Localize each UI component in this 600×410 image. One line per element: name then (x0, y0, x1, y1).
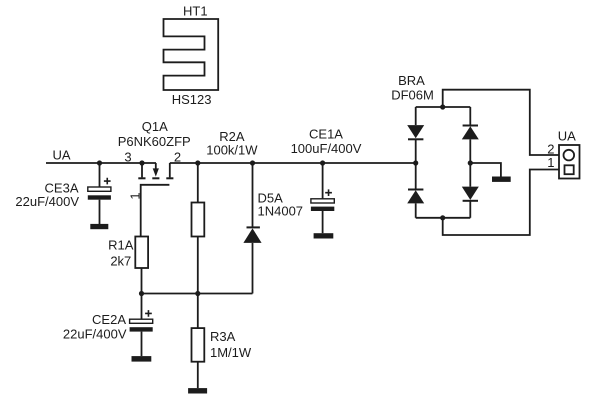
ground (CE3A) (90, 224, 108, 229)
wire R3A to ground (197, 362, 199, 388)
diode BRA D4 (lower right) (462, 163, 479, 218)
ground (CE2A) (132, 356, 152, 362)
transistor Q1 (MOSFET) (138, 163, 173, 237)
junction bridge top center (440, 104, 445, 109)
diode D5A (243, 163, 261, 294)
capacitor CE3A (88, 163, 111, 224)
svg-text:R1A: R1A (108, 237, 134, 252)
wire bridge bottom rail (416, 217, 471, 219)
wire input rail left (46, 162, 156, 164)
svg-text:3: 3 (124, 149, 131, 164)
junction CE3A top (97, 160, 102, 165)
junction R2A / R3A (195, 291, 200, 296)
junction pin 3 (139, 160, 144, 165)
wire R1A to node (141, 268, 143, 294)
svg-text:2: 2 (174, 149, 181, 164)
heatsink HT1 (164, 19, 219, 90)
wire bridge right mid to ground (470, 163, 501, 177)
svg-text:1: 1 (547, 155, 554, 170)
junction bridge bottom center (440, 215, 445, 220)
svg-text:UA: UA (52, 148, 70, 163)
wire bridge top to connector pin 2 (443, 90, 565, 155)
connector pin 1 contact (565, 165, 574, 174)
wire bridge top rail (416, 106, 471, 108)
svg-text:P6NK60ZFP: P6NK60ZFP (118, 134, 191, 149)
wire rail right of Q1A (170, 162, 416, 164)
ground (bridge) (492, 177, 511, 182)
junction CE1A top (320, 160, 325, 165)
ground (CE1A) (314, 233, 334, 238)
svg-text:2k7: 2k7 (110, 254, 131, 269)
svg-text:1M/1W: 1M/1W (210, 345, 252, 360)
svg-text:1N4007: 1N4007 (258, 203, 304, 218)
junction bridge left mid (413, 160, 418, 165)
svg-text:22uF/400V: 22uF/400V (63, 327, 127, 342)
connector pin 2 contact (564, 150, 575, 161)
ground (R3A) (188, 388, 207, 393)
svg-text:CE1A: CE1A (309, 126, 343, 141)
wire node to R3A (197, 294, 199, 329)
diode BRA D2 (lower left) (407, 163, 424, 218)
svg-text:100k/1W: 100k/1W (206, 142, 258, 157)
svg-text:DF06M: DF06M (391, 88, 434, 103)
svg-text:Q1A: Q1A (142, 119, 168, 134)
svg-text:HT1: HT1 (183, 4, 208, 19)
svg-text:BRA: BRA (398, 73, 425, 88)
junction R1A / CE2A (139, 291, 144, 296)
diode BRA D1 (upper left) (407, 107, 424, 163)
wire R2A to node (197, 237, 199, 294)
svg-text:CE2A: CE2A (92, 312, 126, 327)
capacitor CE2A (130, 294, 153, 357)
resistor R1A (135, 237, 148, 269)
junction pin 2 / R2A (195, 160, 200, 165)
junction bridge right mid (468, 160, 473, 165)
svg-text:100uF/400V: 100uF/400V (291, 141, 362, 156)
svg-text:R3A: R3A (210, 329, 236, 344)
svg-text:1: 1 (128, 192, 143, 199)
wire bridge bottom to connector pin 1 (443, 170, 565, 236)
resistor R2A (192, 203, 205, 237)
diode BRA D3 (upper right) (462, 107, 479, 163)
wire bottom node rail (142, 293, 253, 295)
junction D5A top (250, 160, 255, 165)
capacitor CE1A (311, 163, 334, 233)
resistor R3A (192, 328, 205, 362)
connector UA body (559, 145, 580, 179)
svg-text:HS123: HS123 (172, 92, 212, 107)
svg-text:22uF/400V: 22uF/400V (15, 194, 79, 209)
wire pin2 to R2A (197, 163, 199, 203)
svg-text:UA: UA (558, 128, 576, 143)
